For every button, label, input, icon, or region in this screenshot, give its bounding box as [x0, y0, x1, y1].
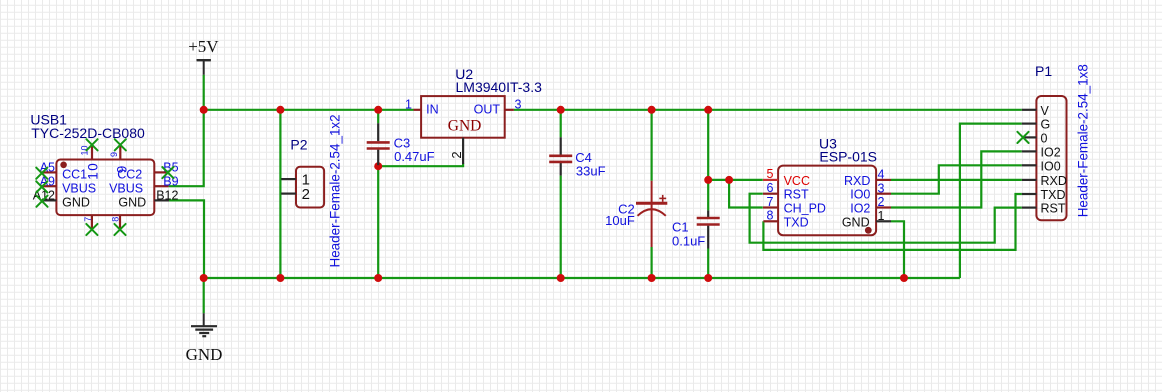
- svg-text:G: G: [1041, 118, 1051, 132]
- svg-text:Header-Female-2.54_1x8: Header-Female-2.54_1x8: [1076, 64, 1091, 217]
- svg-text:P1: P1: [1035, 63, 1052, 79]
- svg-text:V: V: [1041, 104, 1050, 118]
- svg-text:2: 2: [302, 186, 310, 203]
- svg-text:IO0: IO0: [1041, 159, 1061, 173]
- svg-text:0: 0: [1041, 131, 1048, 145]
- svg-text:LM3940IT-3.3: LM3940IT-3.3: [456, 79, 543, 95]
- svg-text:3: 3: [878, 181, 885, 195]
- svg-text:1: 1: [405, 97, 412, 111]
- svg-text:VCC: VCC: [784, 174, 810, 188]
- svg-text:GND: GND: [186, 345, 223, 364]
- svg-text:0.1uF: 0.1uF: [672, 233, 705, 248]
- svg-text:6: 6: [767, 181, 774, 195]
- svg-text:7: 7: [83, 217, 93, 222]
- svg-text:RST: RST: [784, 188, 809, 202]
- svg-text:1: 1: [878, 209, 885, 223]
- svg-text:P2: P2: [290, 137, 307, 153]
- svg-text:2: 2: [878, 195, 885, 209]
- svg-text:B12: B12: [156, 189, 178, 203]
- svg-text:RXD: RXD: [844, 174, 870, 188]
- svg-text:TXD: TXD: [1041, 188, 1066, 202]
- svg-text:C1: C1: [672, 220, 689, 235]
- svg-text:GND: GND: [118, 196, 146, 210]
- svg-text:10uF: 10uF: [605, 213, 635, 228]
- svg-text:RXD: RXD: [1041, 174, 1067, 188]
- svg-text:ESP-01S: ESP-01S: [819, 149, 877, 165]
- svg-text:VBUS: VBUS: [109, 181, 143, 195]
- svg-text:OUT: OUT: [474, 102, 501, 116]
- svg-text:IO2: IO2: [1041, 145, 1061, 159]
- svg-text:CH_PD: CH_PD: [784, 202, 826, 216]
- svg-text:8: 8: [111, 217, 121, 222]
- svg-text:TXD: TXD: [784, 215, 809, 229]
- svg-text:RST: RST: [1041, 202, 1066, 216]
- svg-text:2: 2: [449, 151, 464, 158]
- svg-text:GND: GND: [842, 215, 870, 229]
- svg-text:IO2: IO2: [850, 202, 870, 216]
- svg-text:TYC-252D-CB080: TYC-252D-CB080: [31, 125, 145, 141]
- svg-text:Header-Female-2.54_1x2: Header-Female-2.54_1x2: [328, 114, 343, 267]
- svg-text:B5: B5: [163, 161, 178, 175]
- svg-text:CC1: CC1: [62, 168, 87, 182]
- svg-text:+5V: +5V: [188, 37, 219, 56]
- svg-text:0.47uF: 0.47uF: [394, 149, 435, 164]
- svg-text:4: 4: [878, 168, 885, 182]
- svg-text:GND: GND: [448, 117, 482, 134]
- svg-text:3: 3: [515, 97, 522, 111]
- svg-text:10: 10: [85, 162, 100, 180]
- svg-text:5: 5: [767, 167, 774, 181]
- svg-text:IO0: IO0: [850, 188, 870, 202]
- svg-text:VBUS: VBUS: [62, 181, 96, 195]
- svg-text:33uF: 33uF: [576, 164, 606, 179]
- svg-text:GND: GND: [62, 196, 90, 210]
- svg-text:7: 7: [767, 195, 774, 209]
- svg-text:9: 9: [114, 166, 129, 174]
- svg-text:IN: IN: [426, 102, 439, 116]
- svg-text:9: 9: [109, 152, 119, 157]
- svg-text:8: 8: [767, 209, 774, 223]
- svg-text:10: 10: [80, 145, 90, 155]
